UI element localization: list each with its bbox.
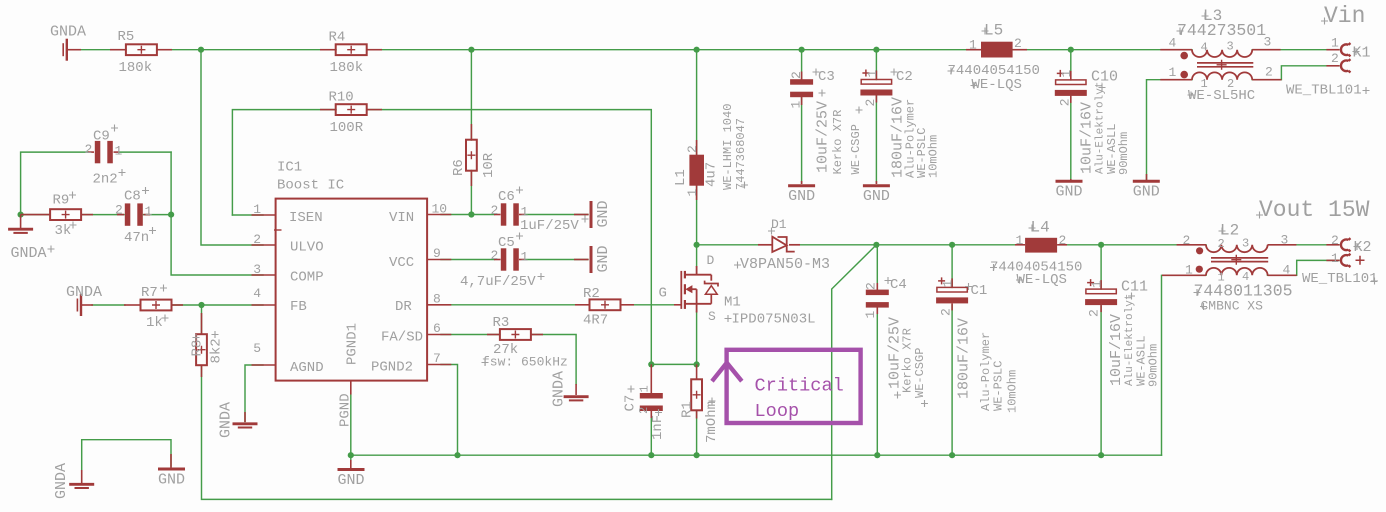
svg-text:10uF/16V: 10uF/16V [1079, 102, 1096, 174]
wire R10 row ISEN to R10 [232, 110, 336, 215]
svg-text:DR: DR [395, 299, 412, 315]
svg-text:1: 1 [685, 189, 700, 197]
svg-text:G: G [659, 286, 667, 302]
svg-text:1: 1 [941, 280, 956, 288]
svg-text:2: 2 [1014, 36, 1022, 51]
svg-text:GNDA: GNDA [218, 402, 235, 438]
wire R9 C8 node [21, 214, 50, 216]
svg-text:WE-PSLC: WE-PSLC [992, 361, 1006, 411]
wire R2 to M1 gate [621, 304, 682, 306]
wire L3 pin3 to K1 pin1 [1252, 49, 1339, 51]
ground GND at C10 [1070, 179, 1072, 181]
svg-text:PGND: PGND [338, 393, 354, 427]
svg-text:4,7uF/25V: 4,7uF/25V [460, 274, 536, 290]
wire R3 to GNDA [531, 335, 576, 385]
svg-text:GND: GND [1055, 184, 1082, 201]
wire L2 pin3 to K2 pin2 [1296, 244, 1339, 246]
IC1 boost controller box [276, 199, 428, 381]
svg-text:9: 9 [433, 246, 441, 261]
wire C1 top lead [951, 245, 953, 288]
wire R10 to current sense node [367, 110, 651, 365]
svg-text:2: 2 [1057, 98, 1072, 106]
svg-text:4R7: 4R7 [583, 312, 608, 328]
svg-text:2: 2 [1218, 237, 1225, 251]
svg-text:GND: GND [158, 472, 185, 489]
svg-text:47n: 47n [124, 230, 149, 246]
svg-text:1: 1 [1201, 77, 1208, 91]
svg-text:1: 1 [1169, 65, 1177, 80]
ground GNDA below C9/R9 node [20, 215, 22, 228]
svg-text:180k: 180k [119, 60, 153, 76]
svg-text:C11: C11 [1121, 279, 1148, 296]
svg-text:Vout 15W: Vout 15W [1259, 197, 1370, 223]
capacitor C2 polarized [875, 71, 877, 80]
svg-text:3k: 3k [55, 223, 72, 239]
svg-text:GNDA: GNDA [66, 284, 102, 301]
ground GND at C5 [574, 259, 589, 261]
node vout C4 [873, 242, 879, 248]
svg-text:WE-CSGP: WE-CSGP [849, 124, 863, 174]
svg-text:K1: K1 [1353, 45, 1371, 62]
wire C9 left loop [21, 152, 88, 215]
node PGND2 rail [454, 452, 460, 458]
ic PGND1 pin stub [350, 381, 352, 395]
svg-text:2: 2 [637, 407, 651, 414]
svg-text:2n2: 2n2 [93, 172, 118, 188]
wire vout node to C1 [876, 244, 952, 246]
wire L4 to C11 node [1067, 244, 1101, 246]
svg-text:Boost IC: Boost IC [277, 178, 344, 194]
svg-text:1: 1 [863, 311, 878, 319]
wire C3 bottom to GND [801, 97, 803, 184]
ground GNDA top left [68, 49, 82, 51]
wire vout rail M1 drain to D1 [697, 244, 758, 246]
svg-text:WE_TBL101: WE_TBL101 [1302, 271, 1378, 287]
inductor L4 [1015, 244, 1025, 246]
wire C3 top lead [801, 50, 803, 80]
node C1 gnd [949, 452, 955, 458]
svg-text:D: D [707, 253, 715, 268]
IC1 pin stubs [252, 214, 276, 216]
wire top rail L5 to L3 [1013, 49, 1192, 51]
svg-text:IPD075N03L: IPD075N03L [732, 312, 816, 328]
svg-text:2: 2 [491, 203, 499, 218]
svg-text:2: 2 [1087, 309, 1102, 317]
capacitor C6 [494, 214, 501, 216]
svg-text:1: 1 [1185, 262, 1193, 277]
resistor R6 [470, 124, 472, 140]
svg-text:VIN: VIN [389, 210, 414, 226]
resistor R1 vertical shunt [696, 364, 698, 379]
capacitor C1 polarized [951, 278, 953, 287]
svg-text:WE-LQS: WE-LQS [1017, 272, 1067, 288]
svg-text:GNDA: GNDA [50, 24, 86, 41]
svg-text:1: 1 [865, 70, 880, 78]
wire PGND1 down to ground rail [350, 394, 352, 455]
svg-text:ISEN: ISEN [289, 210, 323, 226]
wire R1 bottom to ground rail [696, 411, 698, 456]
svg-text:7448011305: 7448011305 [1194, 282, 1293, 301]
resistor R3 [487, 334, 500, 336]
wire C5 to GND [525, 259, 588, 261]
svg-text:1: 1 [1090, 280, 1105, 288]
wire C2 top lead [875, 50, 877, 80]
wire L2 pin4 step to K2 pin1 [1268, 260, 1340, 275]
svg-text:Vin: Vin [1324, 3, 1365, 29]
wire C1 to L4 [952, 244, 1015, 246]
wire L1 to M1 drain and vout rail [696, 186, 698, 266]
svg-text:WE-LQS: WE-LQS [972, 77, 1022, 93]
node R6 VIN [468, 211, 474, 217]
svg-text:1: 1 [1059, 70, 1074, 78]
svg-text:C2: C2 [896, 69, 913, 85]
svg-text:C4: C4 [890, 277, 907, 293]
critical loop arrow [712, 363, 742, 381]
wire C11 node to L2 [1101, 244, 1206, 246]
wire GNDA to GND tie bottom left [82, 440, 171, 470]
capacitor C11 polarized [1100, 280, 1102, 289]
svg-text:R6: R6 [451, 159, 467, 176]
svg-text:2: 2 [863, 99, 878, 107]
svg-text:4: 4 [1242, 270, 1249, 284]
node sense R1 [694, 361, 700, 367]
svg-text:COMP: COMP [290, 269, 324, 285]
ground GNDA bottom left [81, 470, 83, 483]
capacitor C7 [650, 364, 652, 393]
IC1 tick mark [274, 229, 282, 231]
svg-text:10mOhm: 10mOhm [927, 135, 941, 178]
wire C4 top lead [876, 245, 878, 291]
svg-text:2: 2 [253, 232, 261, 247]
svg-text:1: 1 [115, 144, 123, 159]
inductor L1 [696, 140, 698, 155]
svg-text:GND: GND [863, 188, 890, 205]
wire C11 bottom to ground rail [1100, 306, 1102, 455]
svg-text:7mOhm: 7mOhm [704, 401, 720, 443]
wire COMP network vertical to pin 3 [171, 152, 263, 275]
svg-text:1: 1 [521, 250, 529, 265]
svg-text:2: 2 [1059, 233, 1067, 248]
wire R6 branch vertical [470, 50, 472, 140]
svg-text:90mOhm: 90mOhm [1147, 344, 1161, 387]
svg-text:10uF/16V: 10uF/16V [1108, 314, 1125, 386]
svg-text:FB: FB [290, 299, 307, 315]
capacitor C4 [876, 283, 878, 291]
ground GND at C3 [801, 181, 803, 184]
svg-text:3: 3 [1264, 35, 1272, 50]
svg-text:C9: C9 [93, 129, 110, 145]
node C1 vout [949, 242, 955, 248]
node C11 gnd [1098, 452, 1104, 458]
svg-text:3: 3 [1281, 233, 1289, 248]
svg-text:V8PAN50-M3: V8PAN50-M3 [740, 256, 830, 273]
svg-text:M1: M1 [724, 295, 741, 311]
node C3 top [799, 47, 805, 53]
svg-text:2: 2 [939, 308, 954, 316]
svg-text:R8: R8 [190, 340, 206, 357]
svg-text:4: 4 [253, 286, 261, 301]
transistor M1 mosfet [674, 304, 681, 306]
svg-text:2: 2 [1183, 233, 1191, 248]
svg-text:180k: 180k [330, 60, 364, 76]
svg-text:1: 1 [1331, 36, 1339, 51]
svg-text:WE-LHMI 1040: WE-LHMI 1040 [721, 104, 735, 190]
resistor R5 [110, 49, 126, 51]
wire feedback return up to vout node [832, 245, 877, 500]
svg-text:GND: GND [595, 200, 612, 227]
wire L1 branch from top rail [696, 50, 698, 155]
wire ground rail [351, 454, 1162, 456]
ground GNDA at R7 [80, 294, 82, 316]
svg-text:R2: R2 [583, 286, 600, 302]
svg-text:Loop: Loop [755, 401, 800, 422]
svg-text:Critical: Critical [755, 376, 844, 397]
wire C2 bottom to GND [875, 96, 877, 184]
wire top rail R4 to L5 [367, 49, 981, 51]
svg-text:3: 3 [1227, 40, 1234, 54]
connector K1 [1326, 49, 1339, 51]
svg-text:IC1: IC1 [277, 160, 302, 176]
svg-text:3: 3 [1242, 237, 1249, 251]
wire VIN pin 10 to C6 [441, 214, 494, 216]
wire top rail R5 to R4 with ULVO tap [157, 49, 336, 51]
svg-text:Kerko X7R: Kerko X7R [831, 110, 845, 175]
svg-text:GNDA: GNDA [551, 371, 568, 407]
wire C10 top lead [1070, 50, 1072, 80]
wire sense node to R1 [651, 363, 696, 365]
node R6 top [468, 47, 474, 53]
node PGND rail [348, 452, 354, 458]
node C4 gnd [874, 452, 880, 458]
wire PGND GND stub [350, 455, 352, 460]
wire FB row GNDA R7 [92, 304, 125, 306]
svg-text:2: 2 [1265, 65, 1273, 80]
ground GND at L3 pin1 [1146, 174, 1148, 181]
choke L2 common-mode [1177, 244, 1206, 246]
svg-text:7447368047: 7447368047 [734, 118, 748, 190]
svg-text:10R: 10R [481, 152, 497, 178]
svg-text:2: 2 [85, 142, 93, 157]
node L1 top [694, 47, 700, 53]
node FB [198, 302, 204, 308]
critical loop annotation box [727, 350, 861, 423]
node COMP net [168, 212, 174, 218]
wire DR pin 8 to R2 [441, 304, 590, 306]
svg-text:PGND1: PGND1 [345, 323, 361, 365]
resistor R10 [320, 109, 336, 111]
wire FA/SD pin 6 to R3 [441, 334, 500, 336]
svg-text:R9: R9 [53, 192, 70, 208]
svg-text:1: 1 [1016, 233, 1024, 248]
svg-text:2: 2 [491, 248, 499, 263]
wire L3 pin1 to GND [1147, 80, 1193, 180]
wire D1 cathode to vout node [800, 244, 876, 246]
svg-text:FA/SD: FA/SD [381, 329, 423, 345]
wire AGND pin 5 to GNDA [245, 365, 263, 422]
svg-text:PGND2: PGND2 [371, 359, 413, 375]
node C11 vout [1098, 242, 1104, 248]
svg-text:C8: C8 [124, 189, 141, 205]
wire top rail GNDA to R5 [68, 49, 127, 51]
resistor R8 vertical [201, 313, 203, 334]
svg-text:VCC: VCC [389, 255, 414, 271]
svg-text:90mOhm: 90mOhm [1117, 132, 1131, 175]
svg-text:WE-SL5HC: WE-SL5HC [1188, 88, 1255, 104]
svg-text:5: 5 [253, 341, 261, 356]
svg-text:D1: D1 [771, 217, 787, 232]
svg-text:2: 2 [864, 282, 879, 290]
wire R7 to FB pin 4 [172, 304, 263, 306]
svg-text:1: 1 [969, 38, 977, 53]
svg-text:R1: R1 [680, 401, 696, 418]
svg-text:WE-CSGP: WE-CSGP [913, 348, 927, 398]
node GNDA comp [18, 212, 24, 218]
svg-text:R10: R10 [329, 89, 354, 105]
ground GND at PGND1 [350, 460, 352, 468]
node sense C7 [648, 361, 654, 367]
svg-text:L1: L1 [673, 169, 689, 186]
svg-text:GND: GND [1133, 184, 1160, 201]
svg-text:2: 2 [1331, 233, 1339, 248]
svg-text:GNDA: GNDA [53, 463, 70, 499]
svg-text:1k: 1k [146, 315, 163, 331]
svg-text:4: 4 [1201, 41, 1208, 55]
svg-text:10: 10 [432, 202, 448, 217]
svg-text:GND: GND [595, 245, 612, 272]
svg-text:GND: GND [337, 472, 364, 489]
svg-text:C6: C6 [498, 189, 515, 205]
capacitor C3 [801, 72, 803, 81]
ground GNDA at AGND pin [244, 412, 246, 422]
node C7 gnd [648, 452, 654, 458]
wire C4 bottom to ground rail [876, 307, 878, 455]
svg-text:4: 4 [1169, 36, 1177, 51]
diode D1 [758, 244, 772, 246]
svg-text:R3: R3 [493, 315, 510, 331]
wire C6 to GND [525, 214, 588, 216]
svg-text:2: 2 [115, 203, 123, 218]
wire M1 source to sense node [696, 312, 698, 364]
capacitor C8 [117, 214, 124, 216]
resistor R9 [21, 214, 50, 216]
svg-text:744273501: 744273501 [1177, 21, 1266, 40]
ground GNDA at R3 [575, 384, 577, 395]
node R1 gnd [694, 452, 700, 458]
resistor R4 [320, 49, 336, 51]
svg-text:K2: K2 [1354, 239, 1372, 256]
svg-text:C3: C3 [818, 69, 835, 85]
svg-text:3: 3 [253, 262, 261, 277]
svg-text:2: 2 [685, 145, 700, 153]
svg-text:R5: R5 [118, 29, 135, 45]
wire C10 bottom to GND [1070, 95, 1072, 179]
wire PGND2 pin 7 down to ground rail [441, 365, 458, 456]
wire C1 bottom to ground rail [951, 305, 953, 455]
svg-text:CMBNC XS: CMBNC XS [1201, 299, 1264, 314]
svg-text:S: S [708, 309, 716, 324]
ground GND at C2 [875, 181, 877, 184]
svg-text:7: 7 [433, 351, 441, 366]
svg-text:1: 1 [1331, 251, 1339, 266]
svg-text:8k2: 8k2 [209, 338, 225, 363]
svg-text:2: 2 [1331, 51, 1339, 66]
inductor L5 [966, 49, 981, 51]
choke L3 common-mode [1160, 49, 1192, 51]
svg-text:GNDA: GNDA [11, 245, 47, 262]
svg-text:fsw: 650kHz: fsw: 650kHz [482, 355, 568, 370]
svg-text:6: 6 [433, 321, 441, 336]
wire L3 pin2 step to K1 pin2 [1252, 66, 1339, 80]
svg-text:C5: C5 [498, 235, 515, 251]
wire R8 top lead [201, 305, 203, 334]
svg-text:1uF/25V: 1uF/25V [520, 218, 579, 234]
wire ULVO divider tap down to pin 2 [201, 50, 263, 245]
svg-text:AGND: AGND [290, 360, 324, 376]
svg-text:10mOhm: 10mOhm [1006, 370, 1020, 413]
svg-text:1: 1 [253, 202, 261, 217]
resistor R7 [82, 304, 94, 306]
node C2 top [873, 47, 879, 53]
svg-text:4: 4 [1283, 262, 1291, 277]
wire C11 top lead [1100, 245, 1102, 289]
capacitor C10 polarized [1070, 71, 1072, 80]
resistor R2 [575, 304, 590, 306]
node C10 top [1068, 47, 1074, 53]
svg-text:8: 8 [433, 291, 441, 306]
svg-text:C1: C1 [971, 283, 988, 299]
svg-text:2: 2 [1227, 77, 1234, 91]
svg-text:GND: GND [788, 188, 815, 205]
svg-text:4u7: 4u7 [704, 162, 720, 187]
wire C9 right to node [120, 151, 172, 153]
ground GND bottom left tie [170, 454, 172, 468]
capacitor C9 [88, 151, 94, 153]
svg-text:R4: R4 [329, 30, 346, 46]
svg-text:R7: R7 [141, 285, 158, 301]
svg-text:100R: 100R [330, 120, 364, 136]
svg-text:10uF/25V: 10uF/25V [815, 101, 832, 173]
wire ground rail riser to L2 pin1 [1162, 275, 1207, 455]
svg-text:1: 1 [638, 385, 652, 392]
wire ISEN pin1 [232, 214, 263, 216]
svg-text:1: 1 [145, 204, 153, 219]
svg-text:2: 2 [789, 71, 804, 79]
svg-text:ULVO: ULVO [290, 240, 324, 256]
wire C7 bottom to ground rail [650, 411, 652, 455]
wire VCC pin 9 to C5 [441, 259, 494, 261]
node ULVO divider [198, 47, 204, 53]
svg-text:1: 1 [789, 101, 804, 109]
connector K2 [1326, 244, 1339, 246]
ground GND at C6 [574, 214, 589, 216]
node M1 drain [694, 242, 700, 248]
svg-text:180uF/16V: 180uF/16V [956, 318, 973, 399]
wire R8 bottom to feedback return [202, 366, 832, 500]
svg-text:1: 1 [1218, 271, 1225, 285]
svg-text:1nF: 1nF [650, 415, 666, 440]
svg-text:WE_TBL101: WE_TBL101 [1286, 82, 1362, 98]
capacitor C5 [494, 259, 501, 261]
